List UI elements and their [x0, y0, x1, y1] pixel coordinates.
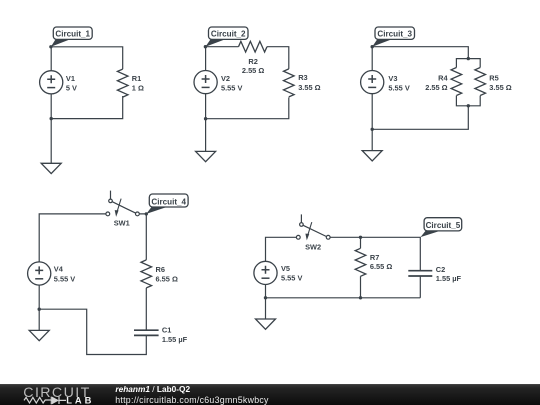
wire top rail C1 — [51, 47, 123, 69]
ground C2 — [196, 151, 216, 161]
node dot parallel bottom C3 — [467, 104, 470, 107]
wire ground lead C3 — [371, 129, 373, 150]
node dot V5 bottom — [264, 296, 267, 299]
logo zigzag resistor — [24, 397, 51, 403]
svg-text:V4: V4 — [54, 264, 64, 273]
node dot bottom-left C3 — [371, 128, 374, 131]
svg-text:3.55 Ω: 3.55 Ω — [298, 83, 320, 92]
voltage source V4 — [28, 262, 51, 285]
svg-text:R4: R4 — [438, 73, 448, 82]
svg-text:Circuit_3: Circuit_3 — [377, 29, 412, 38]
wire ground lead C5 — [265, 298, 267, 319]
switch SW2 — [296, 214, 330, 240]
resistor R7 — [355, 248, 366, 276]
node dot top C2 — [204, 45, 207, 48]
resistor R6 — [141, 260, 152, 288]
wire V3 top — [371, 47, 373, 71]
label Circuit_3 — [372, 39, 391, 46]
wire center down C3 — [372, 106, 468, 130]
voltage source V1 — [40, 71, 63, 94]
svg-text:R6: R6 — [156, 265, 165, 274]
svg-text:http://circuitlab.com/c6u3gmn5: http://circuitlab.com/c6u3gmn5kwbcy — [115, 395, 269, 405]
svg-text:rehanm1 / Lab0-Q2: rehanm1 / Lab0-Q2 — [115, 384, 190, 394]
wire V4 bottom — [38, 285, 40, 309]
svg-text:R5: R5 — [489, 73, 498, 82]
svg-text:Circuit_4: Circuit_4 — [151, 197, 186, 206]
svg-text:5.55 V: 5.55 V — [281, 274, 302, 283]
svg-text:Circuit_2: Circuit_2 — [211, 29, 246, 38]
svg-text:R3: R3 — [298, 73, 307, 82]
resistor R2 — [239, 41, 268, 52]
svg-text:SW1: SW1 — [114, 219, 130, 228]
node dot parallel top C3 — [467, 57, 470, 60]
svg-text:V5: V5 — [281, 264, 290, 273]
voltage source V2 — [194, 71, 217, 94]
resistor R1 — [117, 69, 128, 97]
svg-text:5.55 V: 5.55 V — [388, 83, 409, 92]
wire ground lead C4 — [38, 309, 40, 330]
ground C4 — [29, 330, 49, 340]
wire V2 bottom — [205, 94, 207, 119]
svg-text:1.55 µF: 1.55 µF — [436, 274, 462, 283]
node dot R7 bottom — [359, 296, 362, 299]
svg-text:5.55 V: 5.55 V — [221, 83, 242, 92]
wire V5 top to switch — [266, 237, 297, 261]
voltage source V5 — [254, 261, 277, 284]
wire parallel top bar C3 — [456, 59, 480, 68]
svg-text:5.55 V: 5.55 V — [54, 275, 75, 284]
svg-text:6.55 Ω: 6.55 Ω — [370, 262, 392, 271]
svg-text:2.55 Ω: 2.55 Ω — [242, 66, 264, 75]
wire V4 top to switch — [39, 214, 106, 262]
label Circuit_2 — [205, 39, 225, 46]
switch SW1 — [106, 191, 139, 217]
node dot V4 bottom — [38, 308, 41, 311]
wire ground lead C1 — [50, 119, 52, 164]
resistor R3 — [284, 69, 295, 97]
svg-text:C2: C2 — [436, 265, 445, 274]
resistor R4 — [451, 68, 462, 96]
wire V1 top — [50, 47, 52, 71]
wire top rail C3 — [372, 47, 468, 59]
ground C1 — [41, 163, 61, 173]
wire R6 to C1 — [145, 288, 147, 330]
svg-text:3.55 Ω: 3.55 Ω — [489, 83, 511, 92]
voltage source V3 — [361, 71, 384, 94]
wire C2 bottom — [419, 276, 421, 298]
wire V3 bottom — [371, 94, 373, 130]
svg-text:SW2: SW2 — [305, 243, 321, 252]
wire bottom rail C1 — [51, 96, 123, 119]
wire switch to C2 corner — [330, 237, 420, 270]
wire V1 bottom — [50, 94, 52, 119]
wire parallel bottom bar C3 — [456, 96, 480, 106]
wire V5 bottom — [265, 285, 267, 298]
capacitor C2 — [408, 271, 432, 276]
svg-text:Circuit_5: Circuit_5 — [426, 221, 461, 230]
svg-text:V3: V3 — [388, 74, 397, 83]
label Circuit_5 — [421, 231, 441, 237]
wire bottom rail C2 — [206, 97, 289, 118]
wire ground lead C2 — [205, 119, 207, 152]
wire switch to R6 corner — [139, 214, 146, 260]
svg-text:LAB: LAB — [66, 395, 94, 405]
svg-text:Circuit_1: Circuit_1 — [55, 29, 90, 38]
svg-text:R2: R2 — [248, 57, 257, 66]
label Circuit_1 — [51, 39, 70, 46]
node dot bottom C2 — [204, 117, 207, 120]
capacitor C1 — [134, 330, 159, 335]
node dot top-left C3 — [371, 45, 374, 48]
resistor R5 — [475, 68, 486, 96]
node dot R7 top — [359, 236, 362, 239]
logo diode — [51, 397, 66, 405]
wire R7 leads — [360, 237, 362, 297]
node dot bottom C1 — [50, 117, 53, 120]
svg-text:2.55 Ω: 2.55 Ω — [425, 83, 447, 92]
node dot R6 top — [145, 212, 148, 215]
footer bar — [0, 384, 540, 405]
ground C5 — [256, 319, 276, 329]
svg-text:V2: V2 — [221, 74, 230, 83]
svg-text:R7: R7 — [370, 253, 379, 262]
svg-text:1 Ω: 1 Ω — [132, 83, 144, 92]
svg-text:V1: V1 — [66, 74, 75, 83]
label Circuit_4 — [146, 207, 166, 214]
wire top rail C2 — [205, 47, 288, 69]
wire V2 top — [205, 47, 207, 71]
wire C1 bottom path — [39, 309, 146, 354]
svg-text:6.55 Ω: 6.55 Ω — [156, 274, 178, 283]
svg-text:1.55 µF: 1.55 µF — [162, 335, 188, 344]
svg-text:R1: R1 — [132, 74, 141, 83]
node dot top C1 — [49, 45, 52, 48]
svg-text:C1: C1 — [162, 326, 171, 335]
svg-text:5 V: 5 V — [66, 83, 77, 92]
wire bottom rail C5 — [266, 297, 421, 299]
ground C3 — [362, 151, 382, 161]
